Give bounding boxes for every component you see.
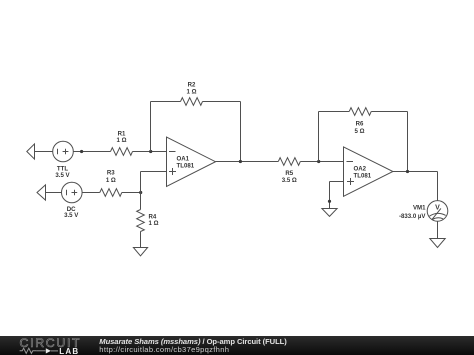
svg-text:1 Ω: 1 Ω xyxy=(106,177,116,184)
resistor R2 1ohm xyxy=(181,82,203,106)
wire (feedback left vertical) xyxy=(150,102,152,152)
wire xyxy=(437,172,439,201)
ground (below R4) xyxy=(133,248,147,256)
svg-text:VM1: VM1 xyxy=(413,205,426,212)
wire xyxy=(46,192,62,194)
svg-text:3.5 V: 3.5 V xyxy=(64,212,79,219)
resistor R5 3.5ohm xyxy=(278,158,300,185)
wire (OA1 output) xyxy=(216,161,279,163)
ground (below VM1) xyxy=(430,239,445,248)
wire (feedback right vertical) xyxy=(240,102,242,162)
svg-text:3.5 V: 3.5 V xyxy=(55,172,70,179)
wire xyxy=(82,192,100,194)
resistor R3 1ohm xyxy=(100,169,122,196)
svg-text:LAB: LAB xyxy=(59,347,79,355)
wire (up to OA1 + input) xyxy=(140,172,142,193)
wire xyxy=(300,161,343,163)
voltage source TTL 3.5V xyxy=(53,141,74,179)
junction dot xyxy=(317,160,320,163)
wire (feedback 2 left vertical) xyxy=(318,112,320,162)
footer bar xyxy=(0,336,474,355)
ground (rotated left, TTL input row) xyxy=(27,144,35,159)
wire xyxy=(141,171,167,173)
svg-text:TL081: TL081 xyxy=(177,163,195,170)
wire (OA2 + input) xyxy=(330,181,344,183)
svg-text:R6: R6 xyxy=(356,121,364,128)
svg-text:TL081: TL081 xyxy=(354,173,372,180)
junction dot xyxy=(406,170,409,173)
CircuitLab logo LAB xyxy=(51,347,79,355)
svg-text:1 Ω: 1 Ω xyxy=(117,137,127,144)
junction dot (inverting input node) xyxy=(149,150,152,153)
op-amp OA2 TL081 xyxy=(344,147,393,196)
node dot xyxy=(80,150,83,153)
junction dot xyxy=(239,160,242,163)
ground (OA2 + input) xyxy=(322,209,337,217)
voltage source DC 3.5V xyxy=(62,182,83,219)
svg-text:1 Ω: 1 Ω xyxy=(149,220,159,227)
wire xyxy=(329,182,331,209)
svg-text:OA2: OA2 xyxy=(354,166,367,173)
svg-text:1 Ω: 1 Ω xyxy=(187,88,197,95)
svg-text:R3: R3 xyxy=(107,169,115,176)
svg-text:http://circuitlab.com/cb37e9pq: http://circuitlab.com/cb37e9pqzfhnh xyxy=(99,345,229,354)
wire xyxy=(203,101,241,103)
resistor R6 5ohm xyxy=(349,108,371,136)
op-amp OA1 TL081 xyxy=(167,137,216,186)
wire (down to R4) xyxy=(140,193,142,210)
ground (rotated left, DC input row) xyxy=(37,185,46,200)
wire xyxy=(73,151,110,153)
wire xyxy=(140,231,142,247)
wire xyxy=(151,101,181,103)
wire xyxy=(133,151,167,153)
resistor R4 1ohm (vertical) xyxy=(137,210,159,232)
svg-text:R5: R5 xyxy=(285,170,293,177)
CircuitLab logo text xyxy=(20,336,82,350)
wire xyxy=(371,111,407,113)
wire xyxy=(35,151,53,153)
svg-text:3.5 Ω: 3.5 Ω xyxy=(282,177,297,184)
CircuitLab logo zigzag xyxy=(20,348,46,353)
resistor R1 1ohm xyxy=(111,131,133,156)
svg-text:-833.0 µV: -833.0 µV xyxy=(399,213,426,220)
CircuitLab logo triangle xyxy=(46,348,51,353)
wire xyxy=(319,111,350,113)
junction dot (non-inverting node) xyxy=(139,191,142,194)
wire (OA2 output) xyxy=(393,171,438,173)
wire xyxy=(122,192,141,194)
svg-text:5 Ω: 5 Ω xyxy=(355,128,365,135)
wire xyxy=(437,221,439,238)
node dot xyxy=(328,200,331,203)
svg-text:OA1: OA1 xyxy=(177,156,190,163)
wire (feedback 2 right vertical) xyxy=(407,112,409,172)
voltmeter VM1 xyxy=(399,201,448,222)
